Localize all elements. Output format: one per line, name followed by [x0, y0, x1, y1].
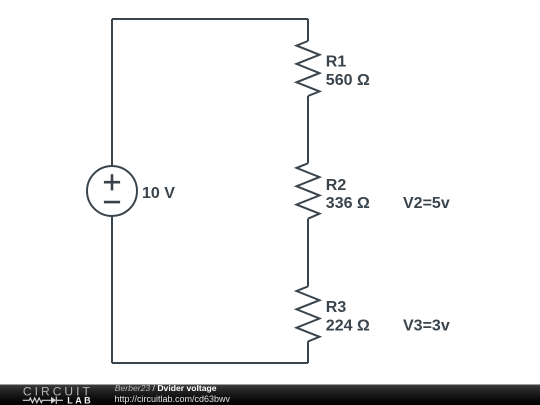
svg-text:V2=5v: V2=5v: [403, 195, 450, 212]
svg-text:LAB: LAB: [67, 396, 93, 405]
svg-text:R1: R1: [326, 54, 347, 71]
svg-text:10 V: 10 V: [142, 185, 175, 202]
svg-text:R3: R3: [326, 299, 347, 316]
svg-text:560 Ω: 560 Ω: [326, 72, 370, 89]
svg-text:V3=3v: V3=3v: [403, 318, 450, 335]
svg-text:R2: R2: [326, 177, 347, 194]
svg-text:http://circuitlab.com/cd63bwv: http://circuitlab.com/cd63bwv: [115, 394, 231, 404]
svg-text:Berber23 / Dvider voltage: Berber23 / Dvider voltage: [115, 383, 217, 393]
svg-text:224 Ω: 224 Ω: [326, 318, 370, 335]
svg-text:336 Ω: 336 Ω: [326, 195, 370, 212]
